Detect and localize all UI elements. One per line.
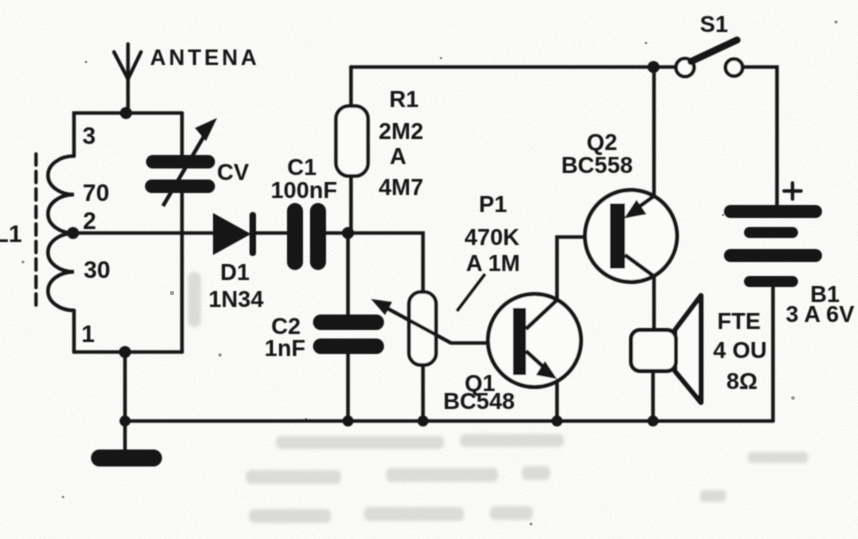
- svg-text:3: 3: [82, 123, 95, 150]
- svg-text:3 A 6V: 3 A 6V: [786, 301, 855, 327]
- svg-text:1N34: 1N34: [209, 286, 264, 312]
- svg-text:L1: L1: [0, 221, 22, 248]
- svg-text:S1: S1: [700, 11, 728, 37]
- svg-text:D1: D1: [220, 259, 250, 285]
- svg-text:BC558: BC558: [561, 152, 633, 178]
- svg-text:CV: CV: [217, 159, 250, 185]
- svg-text:2M2: 2M2: [379, 118, 424, 144]
- svg-text:A 1M: A 1M: [466, 250, 520, 276]
- svg-text:1nF: 1nF: [265, 335, 306, 361]
- svg-text:R1: R1: [389, 86, 419, 112]
- svg-text:470K: 470K: [465, 224, 520, 250]
- svg-text:1: 1: [81, 321, 94, 348]
- svg-text:70: 70: [83, 180, 110, 207]
- svg-text:8Ω: 8Ω: [726, 368, 757, 394]
- svg-text:A: A: [390, 143, 407, 169]
- svg-text:100nF: 100nF: [271, 177, 337, 203]
- svg-text:2: 2: [83, 208, 96, 235]
- svg-text:BC548: BC548: [443, 388, 515, 414]
- svg-text:4M7: 4M7: [379, 174, 424, 200]
- svg-text:P1: P1: [479, 191, 507, 217]
- svg-text:ANTENA: ANTENA: [150, 45, 260, 70]
- svg-text:FTE: FTE: [717, 308, 760, 334]
- svg-text:4 OU: 4 OU: [713, 337, 767, 363]
- svg-text:30: 30: [84, 257, 111, 284]
